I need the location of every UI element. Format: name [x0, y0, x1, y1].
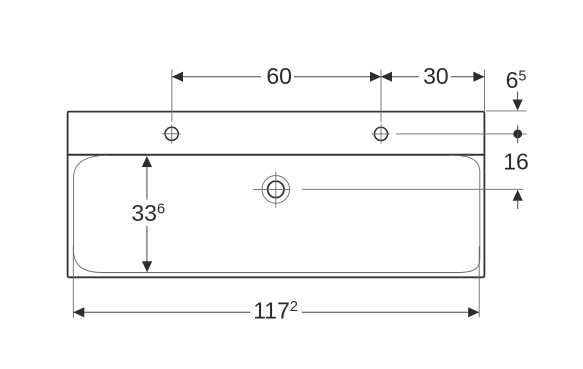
extension line left tap hole: [171, 69, 173, 122]
svg-text:30: 30: [423, 63, 449, 89]
dimension 6.5 arrow: [513, 92, 523, 111]
svg-text:16: 16: [503, 148, 529, 174]
dimension dot: [513, 125, 522, 143]
extension line right tap hole: [380, 69, 382, 122]
reference line top edge right: [486, 110, 527, 112]
reference line drain right: [302, 188, 523, 190]
tap hole left: [162, 124, 180, 143]
tap hole right: [371, 124, 390, 143]
dimension 117.2 line: [73, 307, 479, 317]
svg-text:60: 60: [266, 63, 292, 89]
dimension 16 arrow: [513, 190, 523, 209]
washbasin outer outline: [68, 112, 485, 278]
dimension 60 line: [172, 72, 381, 82]
extension line bottom left: [72, 246, 74, 318]
dimension 33.6 line: [142, 156, 152, 272]
dimension 30 line: [381, 72, 484, 82]
extension line right edge: [483, 69, 485, 111]
drain hole: [253, 172, 291, 208]
reference line tap hole right: [396, 133, 527, 135]
basin inner outline: [74, 155, 480, 272]
extension line bottom right: [478, 246, 480, 317]
deck front edge line: [68, 154, 485, 156]
